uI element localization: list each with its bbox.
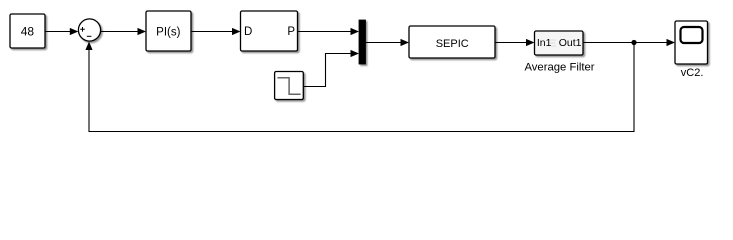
wire SEPIC to average filter <box>495 39 535 46</box>
svg-text:Out1: Out1 <box>559 37 582 49</box>
svg-text:SEPIC: SEPIC <box>436 38 469 50</box>
wire PI(s) to PWM block <box>191 28 241 35</box>
PWM generator block D/P <box>241 11 298 51</box>
sum junction <box>78 19 100 41</box>
scope vC2 <box>675 21 708 64</box>
svg-text:PI(s): PI(s) <box>156 26 180 38</box>
svg-text:48: 48 <box>21 25 35 39</box>
wire P to mux top input <box>298 28 360 35</box>
feedback wire <box>85 42 634 132</box>
svg-text:In1: In1 <box>537 37 552 49</box>
wire step to mux bottom input <box>303 50 359 87</box>
mux <box>359 20 366 64</box>
wire average filter to scope <box>583 39 675 46</box>
junction dot <box>631 40 636 45</box>
average filter subsystem <box>535 31 584 55</box>
wire 48 to sum <box>45 28 78 35</box>
svg-text:D: D <box>244 26 252 38</box>
SEPIC block <box>409 26 495 58</box>
PID controller PI(s) <box>146 11 191 51</box>
constant block 48 <box>10 14 45 48</box>
svg-text:Average Filter: Average Filter <box>524 61 594 73</box>
svg-text:P: P <box>287 26 295 38</box>
wire mux to SEPIC <box>366 39 410 46</box>
wire sum to PI(s) <box>101 28 146 35</box>
step block <box>275 72 304 100</box>
svg-text:vC2.: vC2. <box>681 67 704 79</box>
